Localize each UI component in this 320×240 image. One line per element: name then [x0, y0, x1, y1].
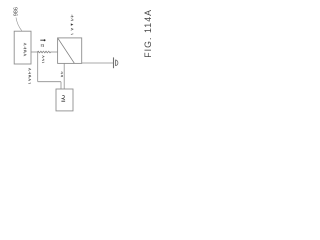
leader line from 986 to battery box	[16, 18, 22, 31]
wire resistor to switch box	[50, 51, 57, 53]
label next to motor wire	[61, 71, 63, 77]
wire stub down into motor box	[60, 82, 62, 89]
battery box (バッテリ)	[14, 31, 31, 64]
text column below battery box (rotated caption)	[28, 68, 31, 83]
node: tap wire down from main wire	[37, 52, 39, 82]
switch label column スイッチ (rotated, above box)	[71, 15, 74, 35]
resistor R (zigzag)	[38, 51, 51, 53]
resistor label digits below arrow	[41, 44, 44, 47]
switch box (スイッチ)	[58, 38, 82, 64]
svg-text:986: 986	[14, 7, 20, 16]
battery text バッテリ (rotated, drawn as glyph squiggles)	[24, 43, 27, 56]
wire switch bottom to motor box	[63, 63, 65, 89]
resistor label arrow (dark mark above resistor)	[40, 39, 43, 42]
resistor caption column (below zigzag, rotated)	[42, 56, 44, 63]
ground wire from switch box	[82, 62, 114, 64]
wire horizontal to motor	[38, 81, 61, 83]
motor box	[56, 89, 73, 111]
wire battery to resistor	[31, 51, 39, 53]
switch label wedge (dark mark in column)	[71, 23, 74, 25]
svg-text:FIG. 114A: FIG. 114A	[143, 9, 153, 58]
ground symbol (rotated: vertical bars)	[114, 57, 118, 68]
switch blade diagonal	[58, 38, 74, 63]
motor glyph M (rotated)	[61, 95, 65, 101]
